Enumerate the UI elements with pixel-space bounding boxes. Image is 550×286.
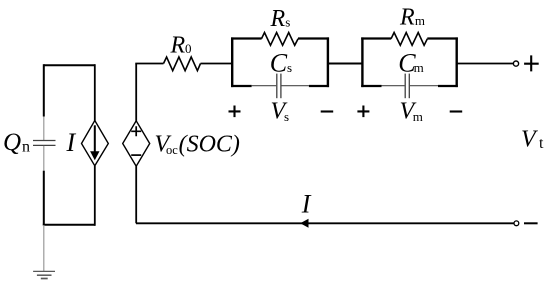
svg-text:Q: Q xyxy=(3,129,21,156)
wire bottom rail xyxy=(136,222,514,224)
svg-text:R: R xyxy=(270,6,286,32)
label Rm xyxy=(399,5,425,31)
label polarity plus Vs xyxy=(229,106,241,118)
terminal plus xyxy=(513,61,518,66)
wire Voc to R0 xyxy=(135,63,163,65)
wire box2 top left xyxy=(361,37,391,39)
arrow current I on bottom rail xyxy=(300,219,308,228)
wire box1 bottom right xyxy=(309,85,329,87)
svg-text:m: m xyxy=(415,13,425,28)
svg-text:0: 0 xyxy=(185,41,192,56)
voltage source Voc xyxy=(123,121,150,166)
current source I xyxy=(82,121,109,166)
wire box2 to plus terminal xyxy=(457,63,514,65)
svg-text:m: m xyxy=(413,109,423,124)
resistor Rs xyxy=(262,33,299,46)
wire box1 to box2 xyxy=(328,63,363,65)
label polarity plus Vm xyxy=(357,106,369,118)
terminal minus xyxy=(514,221,519,226)
label polarity minus Vs xyxy=(321,110,334,112)
wire box2 bottom left xyxy=(361,85,381,87)
capacitor Cm xyxy=(382,74,439,99)
label R0 xyxy=(170,32,192,58)
svg-text:I: I xyxy=(301,190,312,219)
svg-text:m: m xyxy=(414,60,424,75)
wire box2 bottom right xyxy=(438,85,458,87)
label Cs xyxy=(270,49,292,78)
capacitor Qn xyxy=(33,117,56,171)
wire Voc top lead xyxy=(135,64,137,121)
label Vt xyxy=(521,127,544,153)
svg-text:V: V xyxy=(521,127,538,153)
wire left loop left side upper xyxy=(43,64,45,116)
label Vm xyxy=(400,99,423,125)
label Cm xyxy=(398,49,424,78)
wire box2 top right xyxy=(427,37,458,39)
resistor R0 xyxy=(164,57,201,71)
wire left loop bottom xyxy=(43,224,95,226)
capacitor Cs xyxy=(252,74,309,99)
svg-text:oc: oc xyxy=(166,143,178,157)
label I source xyxy=(66,128,77,157)
svg-text:t: t xyxy=(539,135,544,152)
svg-text:R: R xyxy=(170,32,186,58)
wire R0 to box1 xyxy=(201,63,232,65)
svg-text:s: s xyxy=(285,15,290,30)
wire current source top lead xyxy=(94,64,96,121)
node box2 right edge xyxy=(456,37,458,87)
wire box1 bottom left xyxy=(231,85,252,87)
svg-text:R: R xyxy=(399,5,415,31)
wire box1 top right xyxy=(298,37,329,39)
ground xyxy=(33,225,55,279)
svg-text:C: C xyxy=(270,49,288,78)
node box2 left edge xyxy=(361,37,363,87)
label I bottom xyxy=(301,190,312,219)
label plus terminal xyxy=(524,55,539,71)
svg-text:n: n xyxy=(22,139,30,156)
wire current source bottom lead xyxy=(94,166,96,226)
label Rs xyxy=(270,6,291,32)
svg-text:(SOC): (SOC) xyxy=(179,132,240,158)
label Voc(SOC) xyxy=(155,132,240,158)
label Qn xyxy=(3,129,30,156)
wire left loop left side lower xyxy=(43,171,45,225)
wire Voc bottom lead xyxy=(135,166,137,223)
node box1 right edge xyxy=(327,37,329,87)
svg-text:s: s xyxy=(287,60,292,75)
wire box1 top left xyxy=(231,37,262,39)
svg-text:I: I xyxy=(66,128,77,157)
node box1 left edge xyxy=(231,37,233,87)
svg-text:s: s xyxy=(284,109,289,124)
label Vs xyxy=(271,99,290,125)
resistor Rm xyxy=(391,33,427,46)
label polarity minus Vm xyxy=(450,110,463,112)
label minus terminal xyxy=(524,222,538,224)
wire left loop top xyxy=(44,64,95,66)
